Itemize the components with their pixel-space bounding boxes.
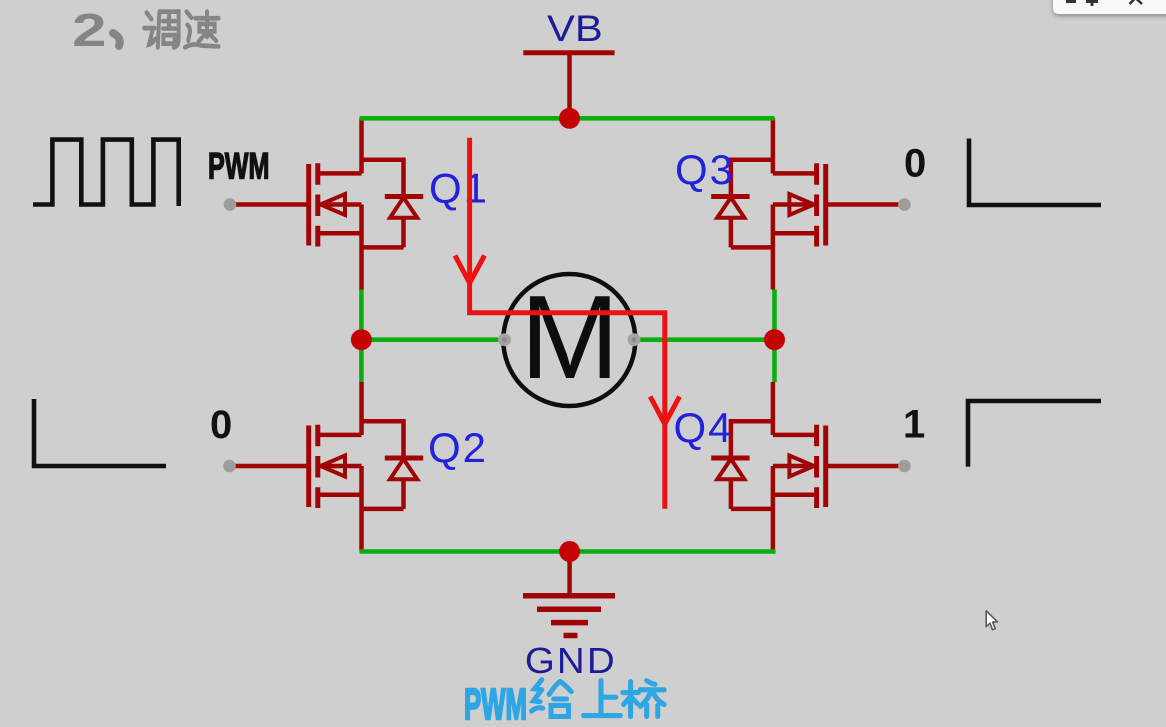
junction GND node	[559, 541, 580, 562]
transistor Q3	[711, 118, 826, 289]
title text 2、	[72, 5, 107, 56]
svg-text:1: 1	[903, 403, 925, 447]
gate wire Q1	[230, 202, 309, 207]
svg-text:VB: VB	[547, 8, 603, 49]
current flow path	[470, 138, 665, 509]
PWM input waveform icon	[33, 140, 179, 206]
toolbar fragment top-right	[1053, 0, 1166, 14]
toolbar chevron icon	[1130, 0, 1143, 4]
current arrowhead 1	[455, 256, 485, 284]
svg-text:PWM: PWM	[464, 679, 527, 727]
svg-text:Q1: Q1	[429, 165, 489, 212]
svg-text:2: 2	[72, 5, 107, 56]
gate terminal dot Q1	[224, 198, 237, 211]
wire bottom rail	[360, 549, 776, 554]
ground symbol	[523, 552, 615, 636]
wire top rail	[360, 116, 775, 121]
gate wire Q2	[230, 464, 309, 469]
toolbar plus icon	[1086, 0, 1098, 6]
svg-text:0: 0	[904, 142, 926, 186]
svg-text:0: 0	[210, 403, 232, 447]
caption char 桥	[623, 681, 664, 717]
svg-text:PWM: PWM	[208, 145, 269, 187]
junction VB node	[559, 108, 580, 129]
transistor Q4	[711, 382, 826, 552]
low-level waveform icon bottom-left	[34, 399, 166, 466]
transistor Q2	[309, 382, 424, 552]
wire mid-left horizontal	[361, 337, 504, 342]
motor M	[503, 271, 635, 406]
current arrowhead 2	[650, 397, 679, 425]
svg-text:Q4: Q4	[674, 404, 734, 451]
motor terminal left	[498, 333, 511, 346]
mouse cursor	[986, 611, 997, 630]
power symbol VB	[523, 53, 614, 119]
wire mid-right vertical	[772, 290, 777, 383]
title char 速	[185, 12, 219, 48]
toolbar minus icon	[1066, 0, 1076, 3]
gate terminal dot Q3	[898, 198, 911, 211]
caption char 给	[532, 680, 572, 717]
gate wire Q3	[826, 202, 905, 207]
svg-text:M: M	[520, 271, 619, 404]
transistor Q1	[309, 118, 424, 289]
junction right mid node	[764, 329, 785, 350]
gate terminal dot Q4	[898, 460, 911, 473]
title char 调	[144, 12, 178, 48]
motor terminal right	[628, 333, 641, 346]
svg-text:GND: GND	[525, 640, 617, 681]
junction left mid node	[351, 329, 372, 350]
high-level waveform icon bottom-right	[968, 401, 1101, 467]
gate wire Q4	[826, 464, 905, 469]
wire mid-right horizontal	[634, 337, 775, 342]
svg-text:Q2: Q2	[428, 424, 488, 471]
caption char 上	[584, 681, 621, 716]
gate terminal dot Q2	[223, 460, 236, 473]
low-level waveform icon top-right	[969, 139, 1101, 206]
wire mid-left vertical	[359, 290, 364, 383]
svg-text:Q3: Q3	[675, 146, 735, 193]
